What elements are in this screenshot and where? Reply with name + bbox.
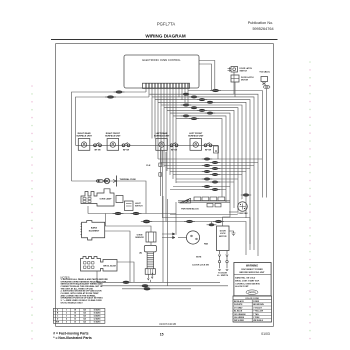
wire bundle from control connector (145, 88, 147, 92)
wire label lower ladder (212, 167, 218, 169)
svg-text:ON SC MODELS ONLY: ON SC MODELS ONLY (61, 302, 84, 304)
svg-text:* = Non-Illustrated Parts: * = Non-Illustrated Parts (53, 336, 92, 340)
svg-text:18: 18 (74, 310, 76, 312)
svg-text:ELECTRONIC OVEN CONTROL: ELECTRONIC OVEN CONTROL (142, 58, 181, 62)
plug arrows into fan (169, 233, 176, 239)
svg-text:TOD (BLK): TOD (BLK) (259, 72, 270, 74)
connector pins below lock motor (218, 251, 220, 261)
wire label bottom 2 (142, 285, 149, 288)
bottom wire run 1 (97, 281, 220, 283)
svg-text:OR ORANGE: OR ORANGE (234, 313, 246, 316)
svg-text:BL BLUE: BL BLUE (234, 311, 243, 313)
wire end drop at sensor feed (141, 181, 146, 214)
wire L2 to left side (76, 97, 150, 145)
svg-text:316072401B: 316072401B (159, 322, 176, 326)
svg-text:BAKE REL. ON COLD: BAKE REL. ON COLD (235, 277, 256, 280)
svg-text:TO DOOR: TO DOOR (218, 273, 227, 275)
surface unit row wire (76, 144, 214, 146)
wire label mid C1 (186, 220, 193, 223)
svg-text:(NOTE): (NOTE) (248, 292, 255, 294)
wire label under light (115, 212, 122, 215)
svg-text:BR BROWN: BR BROWN (253, 304, 264, 306)
sensor mid block (144, 245, 156, 252)
electronic oven control box (124, 55, 199, 88)
connector pair on thermal line (97, 180, 107, 182)
svg-text:CLK: CLK (146, 165, 151, 167)
svg-text:5995264764: 5995264764 (252, 27, 273, 31)
svg-text:RIGHT REAR: RIGHT REAR (78, 132, 91, 135)
svg-text:1-DOOR LOCK SW: 1-DOOR LOCK SW (192, 265, 209, 267)
svg-text:LEFT REAR: LEFT REAR (156, 132, 168, 135)
wire label lower ladder (204, 185, 210, 187)
svg-text:10: 10 (74, 322, 76, 324)
svg-text:GN GREEN: GN GREEN (234, 317, 245, 319)
door lock motor box (217, 226, 230, 251)
wire label lower ladder (204, 170, 210, 172)
wire label above conv motor (243, 194, 249, 197)
infinite switch (94, 144, 97, 147)
thermal fuse bar (116, 176, 118, 187)
svg-text:ELEMENT: ELEMENT (89, 231, 100, 233)
sensor to bottom wire (150, 280, 152, 282)
wire label ladder (191, 117, 197, 119)
bake element box (82, 221, 105, 240)
svg-text:WARNING: WARNING (246, 265, 258, 268)
svg-text:MOTOR: MOTOR (219, 236, 227, 238)
svg-text:(N): (N) (139, 253, 142, 255)
svg-text:WR W-RED: WR W-RED (234, 320, 245, 322)
door latch motor (231, 75, 239, 82)
svg-text:SENSOR: SENSOR (135, 237, 144, 239)
wire label lower ladder (212, 181, 218, 183)
wire label lower ladder (212, 161, 218, 163)
wire label right of control (212, 89, 219, 92)
svg-text:R RED: R RED (253, 301, 260, 303)
svg-text:W WHITE: W WHITE (234, 304, 243, 306)
conv motor top wire (241, 198, 244, 200)
svg-text:PGFL7TA: PGFL7TA (157, 22, 176, 27)
wire label lower ladder (212, 173, 218, 175)
svg-text:ALLOW CONT.: ALLOW CONT. (235, 285, 249, 288)
oven light switch A (116, 196, 123, 203)
svg-text:CONTROL OVEN SEN RTD: CONTROL OVEN SEN RTD (235, 283, 260, 285)
wire label ladder (191, 107, 197, 109)
svg-text:THERMAL FUSE: THERMAL FUSE (120, 178, 137, 181)
surface unit RIGHT FRONT (107, 139, 119, 151)
svg-text:GY GRAY: GY GRAY (234, 306, 243, 309)
elbow into lock motor top (223, 217, 230, 226)
svg-text:SURFACE UNIT: SURFACE UNIT (188, 134, 204, 137)
convection motor (238, 202, 248, 212)
svg-text:18 AWG: 18 AWG (93, 309, 101, 312)
svg-text:Y YELLOW: Y YELLOW (253, 311, 263, 313)
svg-text:DISCONNECT POWER: DISCONNECT POWER (241, 269, 263, 271)
svg-text:BK BLACK: BK BLACK (234, 300, 245, 303)
svg-text:1: 1 (66, 310, 67, 312)
svg-text:15: 15 (160, 332, 164, 336)
surface unit LEFT FRONT (190, 139, 202, 151)
svg-text:P PINK: P PINK (253, 317, 260, 319)
bottom wire run 2 (101, 285, 228, 287)
oven light assembly block (81, 189, 114, 206)
wire label under light 2 (133, 212, 140, 215)
svg-text:BROIL CONT. START SUP.: BROIL CONT. START SUP. (235, 279, 259, 282)
svg-text:10 AWG: 10 AWG (93, 321, 101, 324)
wire label ladder (199, 98, 205, 100)
wire label left L2 (107, 96, 114, 99)
wire label above lock motor (209, 224, 215, 226)
svg-text:SWITCH: SWITCH (135, 206, 143, 208)
wire label mid C2 (215, 220, 222, 223)
sensor plug (145, 269, 155, 275)
wire label left L1 (116, 91, 123, 94)
surface unit RIGHT REAR (78, 139, 90, 151)
svg-text:BROIL ELEM: BROIL ELEM (103, 266, 116, 268)
mid wire run C (144, 222, 246, 256)
infinite switch (204, 144, 207, 147)
TOD box (261, 77, 268, 82)
svg-text:LOCK: LOCK (220, 233, 226, 235)
svg-text:14 AWG: 14 AWG (93, 315, 101, 318)
wires at bake element (105, 226, 151, 232)
sensor plug pins (147, 273, 153, 280)
terminal block strip (178, 200, 230, 202)
door latch switch (231, 67, 238, 73)
svg-text:12: 12 (74, 319, 76, 321)
svg-text:MOTOR: MOTOR (241, 80, 249, 82)
wire control right 2 (199, 64, 212, 91)
sensor heater column (147, 252, 154, 269)
warning box (234, 263, 271, 296)
svg-text:2: 2 (66, 313, 67, 315)
svg-text:OVEN LAMP: OVEN LAMP (100, 198, 113, 201)
svg-text:BEFORE SERVICING UNIT: BEFORE SERVICING UNIT (239, 272, 265, 274)
thermal limiter line (72, 180, 142, 182)
wire up to latch switch (199, 61, 215, 91)
svg-text:01/03: 01/03 (261, 332, 270, 336)
svg-text:INF SW: INF SW (94, 149, 101, 151)
svg-text:Publication No.: Publication No. (248, 21, 274, 25)
wire label ladder (183, 104, 189, 106)
wire label lower ladder (204, 178, 210, 180)
svg-text:T TAN: T TAN (253, 313, 259, 316)
svg-text:INF SW: INF SW (205, 149, 212, 151)
svg-text:FAN: FAN (204, 243, 209, 246)
TOD resistor (264, 85, 270, 88)
switch 4 drop wire (212, 145, 218, 159)
svg-text:WIRING DIAGRAM: WIRING DIAGRAM (145, 34, 185, 39)
wire label bottom 3 (144, 288, 151, 291)
wire from control right side (188, 90, 263, 92)
svg-text:PWR TERM BLOCK: PWR TERM BLOCK (181, 209, 199, 211)
svg-text:V VIOLET: V VIOLET (253, 307, 262, 309)
wire label ladder (207, 112, 213, 114)
wires from broil (117, 262, 134, 282)
small component on ladder vertical 2 (159, 173, 162, 177)
control board connector comb (143, 83, 190, 88)
svg-text:SURFACE UNIT: SURFACE UNIT (76, 134, 92, 137)
svg-text:SURFACE UNIT: SURFACE UNIT (105, 134, 121, 137)
small relay box at bus left (214, 146, 219, 153)
wires below oven light (87, 206, 89, 214)
broil element connector block (81, 257, 118, 272)
svg-text:DOOR: DOOR (220, 231, 227, 233)
svg-text:INF SW: INF SW (171, 149, 178, 151)
infinite switch (122, 144, 125, 147)
svg-text:L.L. SWITCH: L.L. SWITCH (217, 275, 229, 277)
mid wire run B (162, 218, 250, 251)
wire label lower ladder (204, 164, 210, 166)
wire label ladder (183, 115, 189, 117)
upper wire ladder to right bus (150, 94, 259, 256)
svg-text:12 AWG: 12 AWG (93, 318, 101, 321)
TOD vertical wires (263, 82, 267, 198)
svg-text:3: 3 (66, 316, 67, 318)
svg-text:16 AWG: 16 AWG (93, 312, 101, 315)
svg-text:6: 6 (66, 322, 67, 324)
svg-text:CONV FAN: CONV FAN (238, 212, 248, 215)
wire label left of sensor (143, 220, 150, 223)
small component on ladder vertical 1 (159, 163, 162, 167)
header rule line (51, 39, 278, 41)
svg-text:NOTE: NOTE (196, 257, 202, 259)
perforation dots left (31, 85, 33, 87)
svg-text:SURFACE UNIT: SURFACE UNIT (154, 134, 170, 137)
wire L1 to left side (72, 92, 147, 181)
wire code table (233, 296, 272, 322)
wire label lower ladder (212, 188, 218, 190)
wire label ladder (183, 93, 189, 95)
svg-text:WB W-BLK: WB W-BLK (253, 320, 264, 322)
svg-text:OVEN: OVEN (137, 235, 143, 237)
hatched lug left of strip (180, 198, 191, 203)
wire label bottom 1 (123, 281, 130, 284)
ground at door lock (229, 231, 236, 236)
svg-text:DOOR LATCH: DOOR LATCH (240, 67, 253, 70)
lower wire ladder (158, 158, 262, 160)
wire label ladder (207, 101, 213, 103)
fan motor (186, 231, 199, 244)
wire label lower ladder (204, 158, 210, 160)
bottom wire run 3 (122, 288, 191, 290)
wire label ladder (199, 109, 205, 111)
oven sensor connector box (146, 232, 156, 242)
infinite switch (170, 144, 173, 147)
bottom left wire gauge table (53, 308, 105, 323)
svg-text:BAKE: BAKE (91, 227, 98, 230)
svg-text:INF SW: INF SW (123, 149, 130, 151)
long center verticals to bottom (163, 196, 176, 286)
wire label ladder (191, 96, 197, 98)
lamp symbol (104, 178, 109, 183)
surface unit LEFT REAR (156, 139, 168, 151)
diagram border frame (56, 44, 274, 327)
oven light switch B (125, 201, 134, 211)
svg-text:16: 16 (74, 313, 76, 315)
svg-text:DOOR LATCH: DOOR LATCH (241, 76, 254, 79)
mid wire run A (170, 214, 238, 216)
elbow into lock motor right (229, 211, 238, 213)
left bus verticals (161, 148, 167, 222)
svg-text:SWITCH: SWITCH (240, 71, 248, 73)
